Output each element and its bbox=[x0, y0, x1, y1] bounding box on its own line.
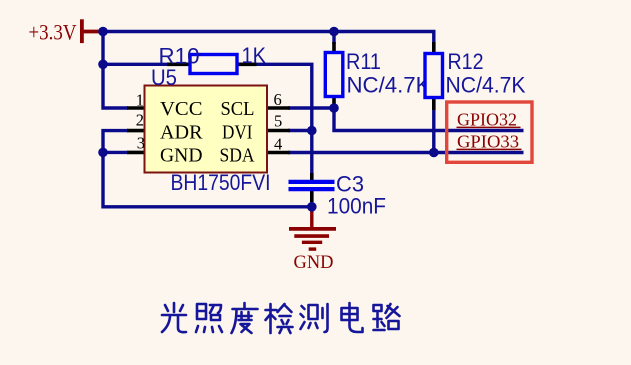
wire SDA to GPIO33 bbox=[288, 151, 524, 154]
title 光照度检测电路 bbox=[162, 303, 400, 333]
svg-text:R11: R11 bbox=[346, 49, 381, 74]
svg-text:DVI: DVI bbox=[222, 122, 253, 143]
junction R10 branch bbox=[98, 60, 108, 70]
wire VCC vertical bbox=[103, 32, 128, 109]
highlight box GPIO bbox=[447, 102, 532, 162]
svg-text:GND: GND bbox=[160, 145, 203, 166]
wire R10 left bbox=[103, 63, 169, 66]
svg-text:5: 5 bbox=[274, 112, 282, 131]
svg-text:3: 3 bbox=[137, 134, 145, 153]
char dian bbox=[342, 303, 363, 332]
resistor R11 bbox=[325, 42, 343, 108]
power +3.3V bbox=[29, 19, 103, 44]
wire C3 top bbox=[310, 131, 313, 175]
char du bbox=[232, 303, 258, 333]
wire DVI pin5 bbox=[288, 129, 312, 132]
svg-text:ADR: ADR bbox=[160, 122, 203, 143]
wire R12 bottom bbox=[432, 109, 435, 153]
junction DVI node bbox=[307, 126, 317, 136]
wire R10 right drop bbox=[255, 64, 312, 130]
svg-text:GND: GND bbox=[294, 253, 334, 273]
svg-text:6: 6 bbox=[274, 90, 282, 109]
svg-text:VCC: VCC bbox=[160, 99, 203, 120]
char jian bbox=[266, 304, 293, 333]
char guang bbox=[162, 303, 186, 332]
wire C3 bottom bbox=[310, 201, 313, 207]
svg-text:U5: U5 bbox=[151, 65, 177, 90]
junction gnd node bbox=[307, 202, 317, 212]
wire ADR/GND vertical bbox=[103, 131, 312, 207]
wire SCL pin6 bbox=[288, 106, 334, 109]
net label GPIO32 bbox=[457, 110, 521, 130]
wire GND pin3 bbox=[103, 151, 128, 154]
wire SCL to GPIO32 bbox=[334, 108, 524, 131]
char lu bbox=[374, 304, 400, 330]
char ce bbox=[301, 304, 328, 332]
svg-text:SCL: SCL bbox=[221, 99, 255, 120]
op IC U5 body bbox=[127, 86, 290, 173]
ground bbox=[289, 207, 336, 249]
svg-text:NC/4.7K: NC/4.7K bbox=[446, 73, 526, 98]
svg-text:2: 2 bbox=[136, 111, 144, 130]
svg-text:4: 4 bbox=[274, 135, 282, 154]
resistor R12 bbox=[425, 42, 443, 110]
junction pin3 bbox=[98, 148, 108, 158]
svg-text:1K: 1K bbox=[242, 43, 267, 68]
svg-text:BH1750FVI: BH1750FVI bbox=[171, 170, 271, 195]
junction R11 bottom bbox=[329, 103, 339, 113]
svg-text:+3.3V: +3.3V bbox=[29, 20, 77, 45]
resistor R10 bbox=[167, 55, 257, 74]
net label GPIO33 bbox=[457, 132, 522, 152]
wire R11 top bbox=[332, 32, 335, 45]
capacitor C3 bbox=[289, 173, 335, 202]
svg-text:100nF: 100nF bbox=[327, 194, 386, 219]
char zhao bbox=[196, 304, 222, 332]
svg-text:1: 1 bbox=[136, 91, 144, 110]
svg-text:SDA: SDA bbox=[220, 145, 255, 166]
wire top rail bbox=[103, 32, 434, 45]
svg-text:NC/4.7K: NC/4.7K bbox=[347, 73, 431, 98]
svg-text:R12: R12 bbox=[448, 49, 484, 74]
junction at power bbox=[98, 27, 108, 37]
junction R11 top bbox=[329, 27, 339, 37]
junction R12 bottom bbox=[429, 148, 439, 158]
